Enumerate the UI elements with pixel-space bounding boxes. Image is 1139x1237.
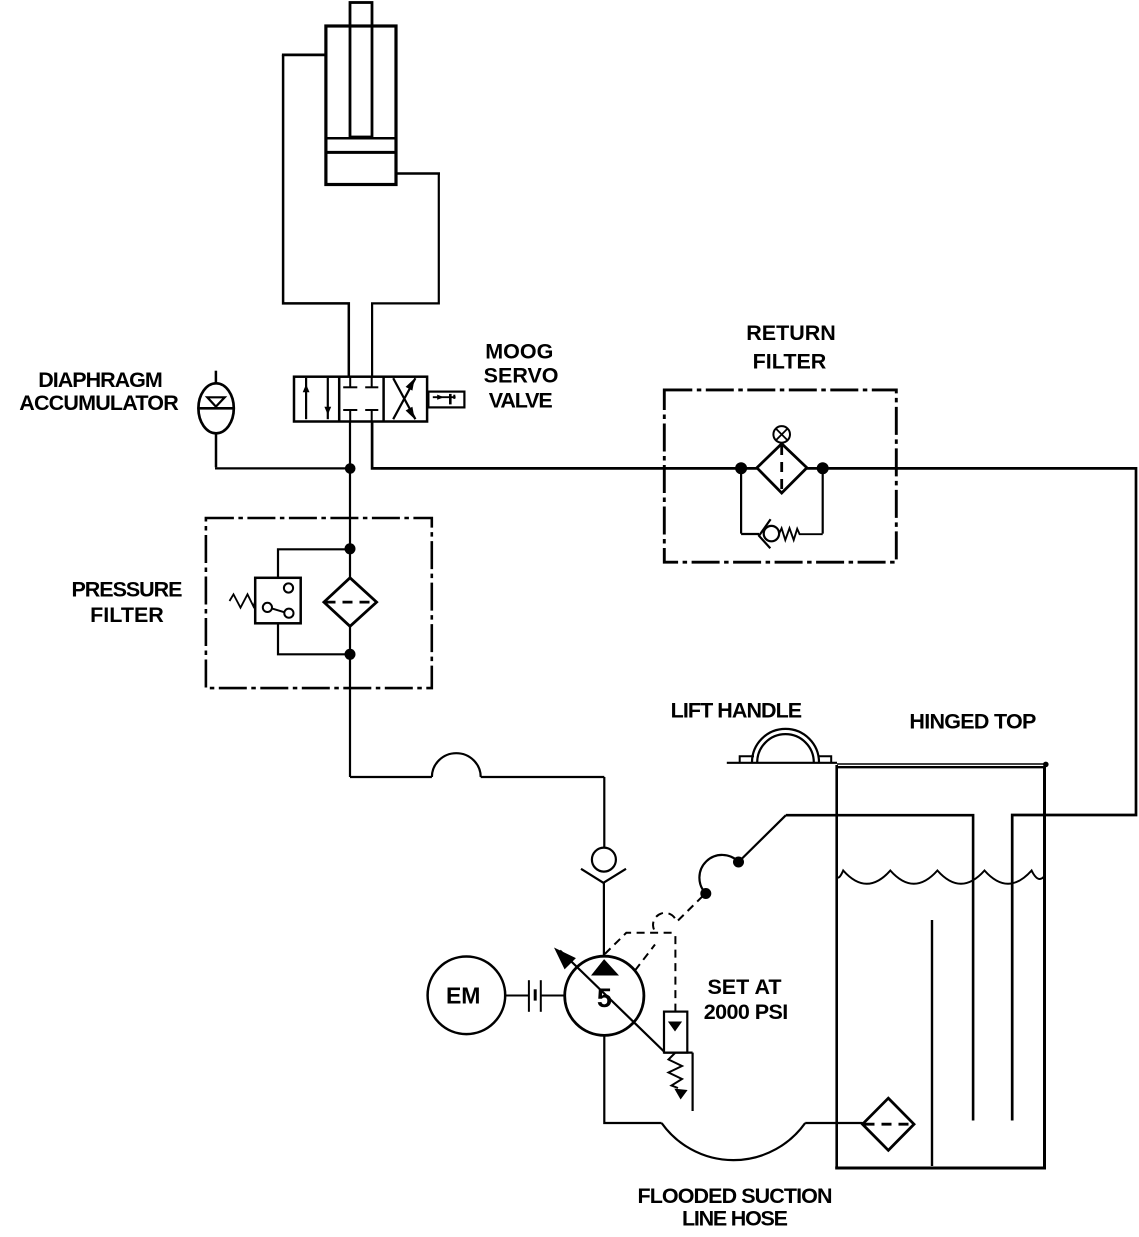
svg-text:FILTER: FILTER bbox=[90, 603, 164, 627]
svg-text:PRESSURE: PRESSURE bbox=[72, 578, 183, 602]
svg-text:2000 PSI: 2000 PSI bbox=[704, 1000, 789, 1024]
svg-text:ACCUMULATOR: ACCUMULATOR bbox=[19, 391, 179, 415]
svg-text:EM: EM bbox=[446, 983, 481, 1009]
svg-text:VALVE: VALVE bbox=[489, 388, 553, 412]
svg-text:5: 5 bbox=[597, 983, 612, 1013]
svg-text:RETURN: RETURN bbox=[746, 321, 836, 345]
svg-text:SET AT: SET AT bbox=[707, 975, 781, 999]
svg-text:SERVO: SERVO bbox=[484, 363, 559, 387]
svg-text:LINE HOSE: LINE HOSE bbox=[682, 1207, 788, 1231]
svg-text:FILTER: FILTER bbox=[753, 350, 827, 374]
svg-text:LIFT HANDLE: LIFT HANDLE bbox=[671, 699, 803, 723]
svg-text:MOOG: MOOG bbox=[485, 339, 553, 363]
svg-text:FLOODED SUCTION: FLOODED SUCTION bbox=[638, 1184, 833, 1208]
svg-text:HINGED TOP: HINGED TOP bbox=[909, 710, 1036, 734]
svg-text:DIAPHRAGM: DIAPHRAGM bbox=[38, 368, 163, 392]
